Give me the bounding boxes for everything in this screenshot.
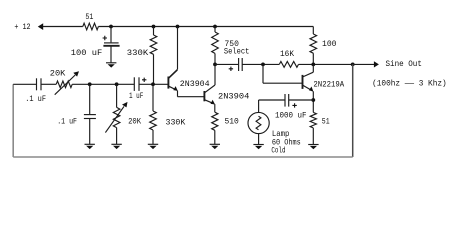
svg-text:330K: 330K (166, 119, 186, 128)
svg-text:1 uF: 1 uF (129, 92, 143, 101)
svg-text:510: 510 (225, 118, 239, 127)
svg-text:Select: Select (224, 47, 250, 57)
svg-text:2N3904: 2N3904 (180, 80, 210, 89)
svg-text:330K: 330K (127, 49, 148, 58)
svg-text:51: 51 (85, 13, 93, 22)
svg-text:(100hz —— 3 Khz): (100hz —— 3 Khz) (372, 79, 447, 89)
svg-text:51: 51 (322, 118, 330, 127)
svg-text:2N3904: 2N3904 (218, 93, 249, 102)
svg-text:.1 uF: .1 uF (57, 118, 77, 127)
svg-text:1000 uF: 1000 uF (275, 111, 307, 120)
svg-text:16K: 16K (280, 50, 294, 59)
svg-text:Sine Out: Sine Out (386, 59, 422, 69)
svg-text:20K: 20K (50, 69, 66, 78)
svg-text:20K: 20K (128, 118, 141, 127)
svg-text:2N2219A: 2N2219A (313, 80, 344, 89)
svg-text:Cold: Cold (271, 146, 285, 156)
svg-text:100: 100 (322, 40, 337, 49)
svg-text:+ 12: + 12 (14, 23, 30, 32)
svg-text:.1 uF: .1 uF (25, 95, 46, 104)
svg-text:100 uF: 100 uF (71, 49, 102, 58)
